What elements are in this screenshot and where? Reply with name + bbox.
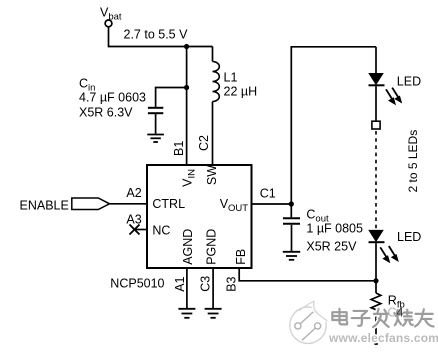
svg-text:X5R 6.3V: X5R 6.3V [79, 106, 133, 120]
svg-text:B1: B1 [172, 141, 186, 156]
svg-text:X5R 25V: X5R 25V [306, 239, 357, 253]
svg-text:4.7 µF 0603: 4.7 µF 0603 [79, 90, 146, 104]
svg-text:CTRL: CTRL [152, 197, 185, 211]
svg-text:www.elecfans.com: www.elecfans.com [328, 331, 438, 345]
svg-text:NCP5010: NCP5010 [110, 277, 164, 291]
svg-text:A3: A3 [126, 213, 141, 227]
svg-text:2.7 to 5.5 V: 2.7 to 5.5 V [124, 27, 189, 41]
svg-text:LED: LED [397, 230, 421, 244]
svg-text:AGND: AGND [181, 229, 195, 265]
svg-text:LED: LED [397, 74, 421, 88]
svg-text:C1: C1 [260, 187, 276, 201]
svg-text:4: 4 [397, 306, 404, 320]
svg-text:22 µH: 22 µH [224, 85, 258, 99]
svg-text:1 µF 0805: 1 µF 0805 [306, 221, 363, 235]
svg-text:C2: C2 [197, 135, 211, 151]
svg-text:2 to 5 LEDs: 2 to 5 LEDs [406, 130, 420, 193]
svg-text:C: C [388, 306, 397, 320]
svg-text:NC: NC [152, 224, 170, 238]
svg-text:PGND: PGND [205, 229, 219, 265]
svg-text:A2: A2 [126, 186, 141, 200]
svg-text:FB: FB [234, 249, 248, 265]
svg-text:L1: L1 [224, 70, 238, 84]
svg-text:C3: C3 [199, 276, 213, 292]
svg-text:B3: B3 [225, 276, 239, 291]
svg-text:SW: SW [205, 165, 219, 185]
svg-text:ENABLE: ENABLE [20, 199, 69, 213]
svg-text:A1: A1 [173, 276, 187, 291]
